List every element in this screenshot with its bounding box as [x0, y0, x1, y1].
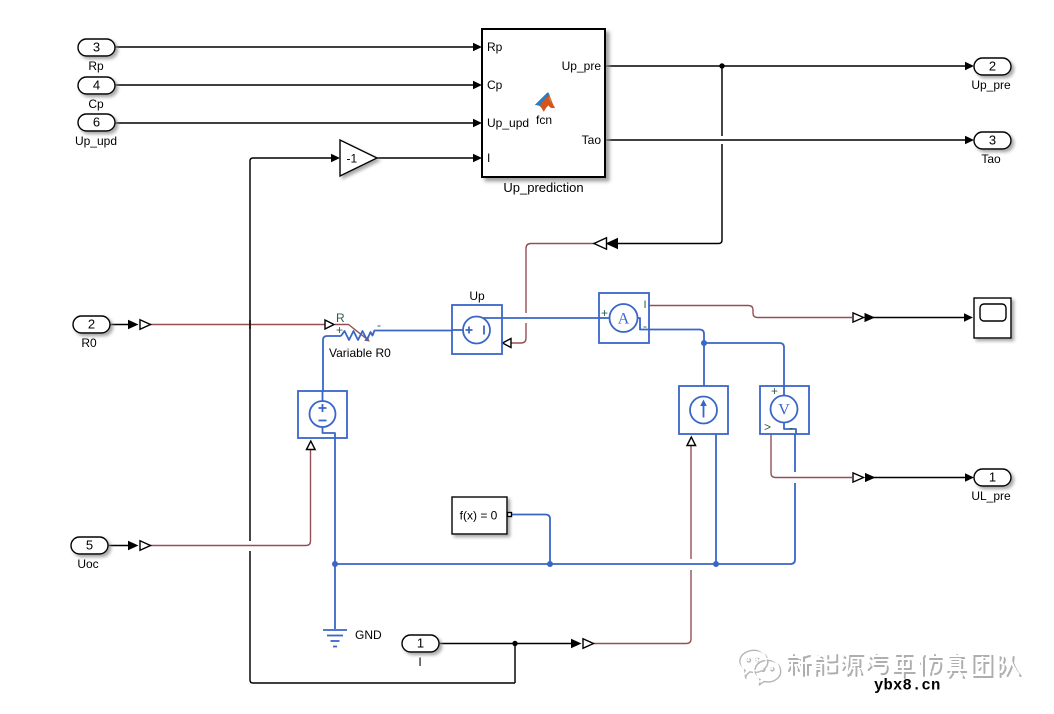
junction bus solver: [547, 561, 553, 567]
svg-text:UL_pre: UL_pre: [971, 489, 1011, 503]
inport 2 R0: [73, 316, 110, 350]
svg-text:+: +: [336, 323, 343, 337]
outport 1 UL_pre: [971, 469, 1011, 503]
wire PS R0 control: [146, 324, 325, 326]
converter Simulink-PS after port1: [571, 639, 594, 649]
label Up: [469, 289, 485, 303]
wire port1 I output: [439, 643, 571, 645]
wire gain output to Up_prediction I input: [377, 154, 482, 163]
wire port5 to converter: [108, 545, 128, 547]
label GND: [355, 628, 382, 642]
outport 2 Up_pre: [971, 58, 1011, 92]
svg-text:3: 3: [93, 40, 100, 55]
svg-text:6: 6: [93, 115, 100, 130]
svg-text:GND: GND: [355, 628, 382, 642]
svg-text:Variable R0: Variable R0: [329, 346, 391, 360]
svg-text:Up_upd: Up_upd: [75, 134, 117, 148]
svg-text:Up_pre: Up_pre: [971, 78, 1011, 92]
wire electrical solver to bus: [512, 515, 551, 565]
MATLAB logo fcn: [535, 93, 555, 127]
wire Tao output to port3: [605, 136, 974, 145]
wire black overdraw at R0 crossing: [249, 320, 251, 329]
converter PS-Simulink to scope: [853, 313, 875, 322]
watermark wechat icon: [738, 649, 781, 686]
svg-text:R0: R0: [81, 336, 97, 350]
wire Rp port3 to Up_prediction: [115, 43, 482, 52]
outport 3 Tao: [974, 132, 1011, 166]
label Variable R0: [329, 346, 391, 360]
svg-text:V: V: [778, 402, 790, 419]
svg-text:3: 3: [989, 133, 996, 148]
ammeter A: [599, 293, 649, 343]
voltage source Up (controlled): [452, 305, 502, 354]
solver configuration f(x)=0: [452, 497, 512, 534]
wire electrical node to voltage sensor top: [704, 343, 784, 386]
wire electrical node to current source top: [703, 343, 705, 386]
wire Cp port4 to Up_prediction: [115, 81, 482, 90]
resistor zigzag Variable R0: [341, 331, 452, 341]
svg-text:Up_upd: Up_upd: [487, 116, 529, 130]
svg-text:Rp: Rp: [88, 59, 104, 73]
gain block -1: [340, 140, 377, 176]
wire converter to port1 UL_pre: [872, 473, 974, 482]
wire PS Up control from converter: [511, 244, 595, 344]
voltage source Uoc (controlled): [298, 391, 347, 438]
svg-text:Up_pre: Up_pre: [562, 59, 602, 73]
svg-text:>: >: [764, 420, 771, 434]
ground GND: [323, 564, 347, 647]
wire Up_pre branch down to converter: [618, 66, 722, 244]
wire Up_pre output to port2: [605, 62, 974, 71]
inport 5 Uoc: [71, 537, 108, 571]
port triangle Up control: [503, 339, 512, 348]
svg-text:I: I: [418, 655, 421, 669]
svg-text:I: I: [487, 151, 490, 165]
MATLAB function block Up_prediction: [482, 29, 605, 177]
wire port2 to converter: [110, 324, 128, 326]
wire PS voltage sensor output to converter: [771, 434, 852, 478]
wire electrical Vsrc to resistor: [323, 336, 341, 391]
inport 6 Up_upd: [75, 114, 117, 148]
converter Simulink-PS after port5: [128, 541, 151, 551]
svg-text:4: 4: [93, 78, 100, 93]
svg-text:Tao: Tao: [981, 152, 1001, 166]
svg-text:2: 2: [88, 317, 95, 332]
svg-text:Rp: Rp: [487, 40, 503, 54]
svg-text:ybx8.cn: ybx8.cn: [874, 677, 941, 695]
wire electrical Up to ammeter: [502, 317, 599, 319]
wire Up_upd port6 to Up_prediction: [115, 119, 482, 128]
wire feedback I loop: from port1 junction down, left, up to gain input: [250, 154, 515, 683]
svg-text:-1: -1: [347, 152, 358, 166]
label Up_prediction: [503, 180, 583, 195]
svg-text:Up_prediction: Up_prediction: [503, 180, 583, 195]
svg-text:I: I: [644, 299, 647, 311]
wire electrical current source bottom to bus: [715, 434, 717, 564]
junction bus left: [332, 561, 338, 567]
wire PS Uoc control: [146, 450, 311, 546]
label R resistor: [336, 311, 381, 337]
voltage sensor V: [760, 384, 809, 435]
svg-text:A: A: [618, 311, 630, 328]
wire PS I control to current source: [589, 446, 691, 644]
scope: [974, 298, 1011, 338]
wire electrical ammeter out down: [649, 330, 704, 344]
converter PS-Simulink to UL_pre: [853, 473, 876, 482]
converter Simulink-PS after port2: [128, 320, 151, 330]
junction electrical node: [701, 340, 707, 346]
wire PS variable resistor arrow: [335, 325, 370, 342]
watermark chinese text (vector strokes, embossed): [787, 653, 1021, 678]
wire electrical ground bus: [335, 434, 795, 564]
svg-text:Tao: Tao: [582, 133, 602, 147]
inport 1 I: [402, 635, 439, 669]
converter Simulink-PS for Up control (leftward): [594, 238, 618, 249]
port triangle Uoc control: [307, 441, 316, 450]
svg-text:-: -: [643, 319, 647, 333]
svg-text:-: -: [377, 318, 381, 332]
svg-text:f(x) = 0: f(x) = 0: [460, 509, 498, 523]
inport 4 Cp: [78, 77, 115, 111]
svg-text:fcn: fcn: [536, 113, 552, 127]
svg-text:+: +: [601, 306, 608, 320]
junction port1 wire: [512, 641, 517, 646]
svg-text:5: 5: [86, 538, 93, 553]
watermark ybx8.cn: [874, 677, 941, 695]
current source (controlled): [679, 386, 728, 434]
inport 3 Rp: [78, 39, 115, 73]
junction bus current source: [713, 561, 719, 567]
svg-text:Uoc: Uoc: [77, 557, 98, 571]
svg-text:Up: Up: [469, 289, 485, 303]
junction Up_pre: [719, 63, 724, 68]
svg-text:1: 1: [989, 470, 996, 485]
svg-text:2: 2: [989, 59, 996, 74]
svg-text:Cp: Cp: [88, 97, 104, 111]
port triangle resistor R control: [325, 320, 334, 329]
port triangle current source control: [687, 437, 696, 446]
svg-text:-: -: [789, 421, 793, 435]
svg-text:+: +: [771, 384, 778, 398]
wire electrical Vsrc bottom to bus: [334, 438, 336, 564]
wire converter to scope: [871, 313, 973, 322]
svg-text:1: 1: [417, 636, 424, 651]
svg-text:Cp: Cp: [487, 78, 503, 92]
wire PS ammeter I output to converter: [649, 306, 852, 318]
